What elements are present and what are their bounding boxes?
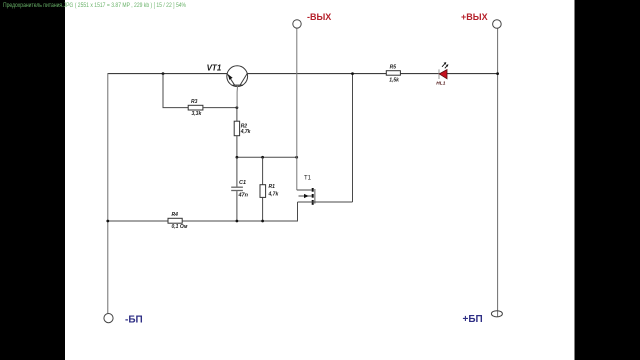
node junction R3 branch	[162, 72, 165, 75]
terminal +VYH	[461, 12, 501, 28]
terminal -BP	[104, 314, 143, 326]
wire bottom horizontal right	[182, 202, 297, 221]
svg-text:VT1: VT1	[207, 63, 222, 72]
wire mid horizontal	[237, 156, 297, 158]
svg-text:0,1 Ом: 0,1 Ом	[172, 224, 188, 230]
node mid right	[295, 156, 298, 159]
wire T1 source/gate bottom	[298, 201, 353, 203]
LED HL1	[436, 62, 448, 86]
wire +VYH stem	[497, 28, 499, 317]
svg-text:+ВЫХ: +ВЫХ	[461, 12, 488, 22]
wire T1 right vertical	[352, 74, 354, 202]
node main right	[496, 72, 499, 75]
svg-text:T1: T1	[304, 175, 312, 181]
wire -VYH stem / gate feed	[296, 28, 298, 190]
wire R3 to base node	[203, 107, 237, 109]
resistor R1	[260, 184, 278, 197]
svg-text:Предохранитель питания.JPG (: Предохранитель питания.JPG ( 2551 x 1517…	[3, 2, 186, 9]
wire C1 bottom stem	[236, 191, 238, 221]
wire R1 bottom stem	[262, 197, 264, 221]
svg-text:-ВЫХ: -ВЫХ	[307, 12, 331, 22]
svg-text:4,7k: 4,7k	[268, 191, 279, 197]
node base junction	[236, 106, 239, 109]
node bottom left	[106, 220, 109, 223]
svg-text:R4: R4	[172, 212, 179, 218]
wire base node to R2	[236, 108, 238, 122]
capacitor C1	[231, 180, 248, 199]
wire main horizontal right segment	[247, 73, 497, 75]
node mid R1	[261, 156, 264, 159]
wire VT1 base lead	[236, 85, 239, 107]
svg-text:R3: R3	[191, 99, 198, 105]
svg-text:4,7k: 4,7k	[240, 129, 251, 135]
transistor VT1	[207, 63, 248, 86]
svg-text:1,5k: 1,5k	[389, 77, 399, 83]
resistor R5	[386, 65, 400, 84]
svg-text:R5: R5	[390, 65, 397, 71]
wire C1 top stem	[236, 157, 238, 186]
svg-text:47n: 47n	[238, 192, 249, 198]
wire R2 to mid node	[236, 136, 238, 158]
node bottom R1	[261, 220, 264, 223]
svg-text:C1: C1	[239, 180, 246, 186]
svg-text:+БП: +БП	[463, 314, 483, 325]
wire R3 branch	[163, 74, 188, 108]
svg-text:3,3k: 3,3k	[192, 111, 202, 117]
wire left vertical to -BP	[107, 73, 109, 313]
node bottom C1	[236, 220, 239, 223]
svg-text:HL1: HL1	[436, 80, 445, 86]
resistor R2	[234, 121, 250, 136]
wire bottom horizontal left	[108, 220, 168, 222]
resistor R3	[188, 99, 203, 117]
node mid left	[236, 156, 239, 159]
wire main horizontal left segment	[108, 73, 227, 75]
transistor T1	[297, 175, 315, 205]
svg-text:-БП: -БП	[125, 315, 143, 326]
node T1 top	[351, 72, 354, 75]
terminal -VYH	[293, 12, 332, 28]
resistor R4	[168, 212, 188, 230]
wire R1 top stem	[262, 157, 264, 184]
svg-text:R1: R1	[269, 184, 276, 190]
terminal +BP	[463, 311, 503, 325]
